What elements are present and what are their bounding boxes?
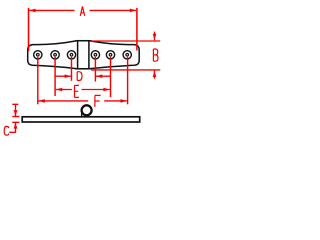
dimension D left line + inward arrow [55,74,71,78]
screw hole 4 [91,51,99,59]
dimension F line right segment + arrow [104,99,127,103]
side view barrel neck [81,111,83,117]
dimension C lower arrow [14,123,18,133]
label B [153,49,158,61]
screw hole 5 [106,51,114,59]
dimension C upper ext tick [12,116,19,118]
dimension F line left segment + arrow [38,99,88,103]
dimension B top extension line [92,40,161,42]
dimension A line right segment + arrow [90,9,137,13]
hinge top view: right leaf outline [90,41,139,69]
side view pin barrel [82,105,92,115]
label D [77,72,82,81]
hole 6 extension line [127,57,129,104]
hole 5 extension line [110,57,112,97]
dimension C upper arrow [14,104,18,116]
label A [80,6,84,16]
dimension B bottom extension line [91,69,160,71]
side view leaf bar [22,117,140,122]
screw hole 1 [34,51,42,59]
hinge knuckle barrel [78,41,89,69]
dimension A extension line right [136,8,138,51]
dimension A extension line left [28,8,30,51]
dimension E line right segment + arrow [82,88,110,92]
dimension D right line + inward arrow [96,74,111,78]
dimension B lower arrow [153,71,157,79]
label C [4,126,9,135]
dimension E line left segment + arrow [56,88,72,92]
dimension B upper arrow [153,32,157,41]
dimension C top tick [12,103,18,105]
hinge top view: left leaf outline [28,41,76,69]
knuckle bottom bar [75,68,91,70]
dimension A line left segment + arrow [29,9,74,13]
knuckle top bar [75,40,90,42]
label E [75,85,79,97]
dimension C elbow leader [9,131,16,133]
hole 1 extension line [37,57,39,104]
screw hole 2 [51,51,59,59]
dimension C lower ext tick [12,121,19,123]
hole 2 extension line [54,57,56,96]
screw hole 3 [67,51,75,59]
label F [95,95,101,107]
hole 4 extension line [94,57,96,82]
screw hole 6 [123,51,131,59]
hole 3 extension line [71,57,73,81]
